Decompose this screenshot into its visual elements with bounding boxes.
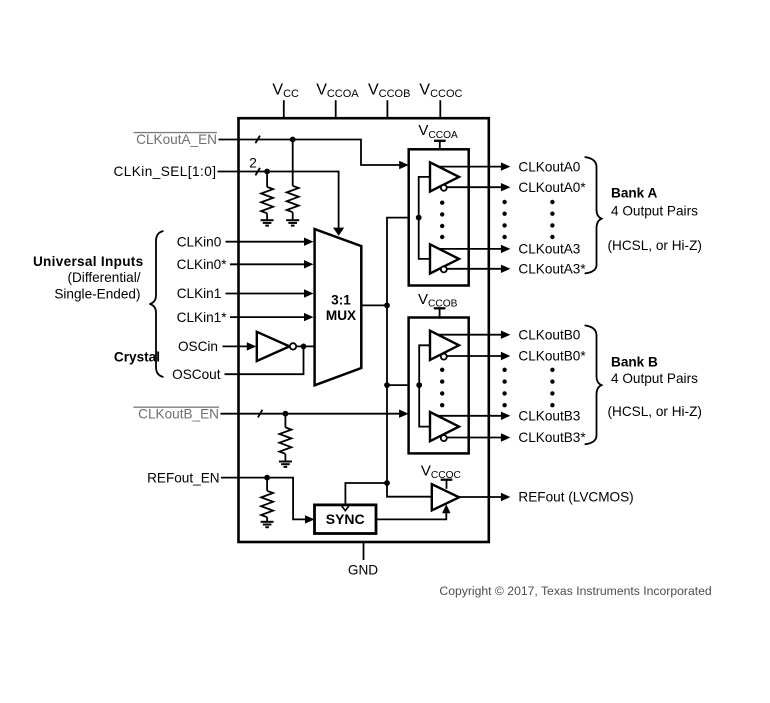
inverter bubble bbox=[290, 343, 296, 349]
svg-text:Universal Inputs: Universal Inputs bbox=[33, 254, 144, 269]
pin VCCOC stub bbox=[439, 100, 441, 118]
buffer REFout (LVCMOS) bbox=[432, 484, 459, 510]
svg-text:CLKin_SEL[1:0]: CLKin_SEL[1:0] bbox=[113, 164, 216, 179]
svg-text:(HCSL, or Hi-Z): (HCSL, or Hi-Z) bbox=[608, 404, 702, 419]
pin GND stub bbox=[363, 542, 365, 560]
ellipsis Bank A buffers bbox=[440, 201, 444, 240]
arrow into SYNC input bbox=[305, 515, 315, 523]
resistor pulldown CLKoutB_EN with ground bbox=[279, 414, 292, 467]
svg-text:CLKoutA3*: CLKoutA3* bbox=[518, 262, 586, 277]
wire CLKin0* to MUX bbox=[230, 263, 305, 265]
open arrow into SYNC top bbox=[342, 506, 349, 511]
label CLKoutB_EN (overlined) bbox=[134, 406, 220, 421]
buffer B0 with outputs CLKoutB0 / CLKoutB0* bbox=[430, 331, 510, 361]
svg-text:OSCin: OSCin bbox=[178, 339, 218, 354]
svg-text:CLKin0: CLKin0 bbox=[177, 234, 222, 249]
svg-text:CLKoutA_EN: CLKoutA_EN bbox=[136, 132, 217, 147]
svg-text:(HCSL, or Hi-Z): (HCSL, or Hi-Z) bbox=[608, 238, 702, 253]
svg-text:CLKoutA3: CLKoutA3 bbox=[518, 242, 580, 257]
wire Bank B input distribution bbox=[419, 345, 430, 426]
resistor pulldown REFout_EN with ground bbox=[261, 478, 274, 528]
Bank B box bbox=[409, 318, 469, 454]
Bank A box bbox=[409, 149, 469, 285]
arrow into Bank A enable bbox=[399, 161, 409, 169]
junction dot CLKoutB_EN bbox=[283, 411, 289, 417]
wire CLKoutB_EN to Bank B enable bbox=[221, 413, 401, 415]
brace Bank A outputs bbox=[585, 157, 602, 274]
arrow into Bank B enable bbox=[399, 410, 409, 418]
wire inverter output to MUX bbox=[297, 345, 315, 347]
power tap VCCOB bbox=[434, 308, 446, 318]
brace universal inputs bbox=[150, 231, 164, 377]
svg-text:CLKin0*: CLKin0* bbox=[177, 257, 228, 272]
buffer B3 with outputs CLKoutB3 / CLKoutB3* bbox=[430, 412, 510, 442]
svg-text:CLKoutA0: CLKoutA0 bbox=[518, 159, 580, 174]
resistor pulldown CLKin_SEL with ground bbox=[261, 172, 274, 226]
wire CLKin0 to MUX bbox=[226, 241, 305, 243]
svg-text:REFout_EN: REFout_EN bbox=[147, 470, 220, 485]
wire REFout_EN to SYNC bbox=[221, 478, 306, 520]
bus slash CLKin_SEL bbox=[255, 168, 260, 176]
svg-text:3:1: 3:1 bbox=[331, 293, 351, 308]
buffer A3 with outputs CLKoutA3 / CLKoutA3* bbox=[430, 244, 510, 273]
bus slash CLKoutA_EN bbox=[255, 136, 260, 144]
junction dot Bank B input bbox=[416, 382, 422, 388]
wire OSCin bbox=[223, 345, 249, 347]
wire CLKin1* to MUX bbox=[230, 316, 305, 318]
arrow CLKin0* into MUX bbox=[304, 260, 314, 268]
svg-text:CLKin1*: CLKin1* bbox=[177, 310, 228, 325]
pin VCC stub bbox=[283, 100, 285, 118]
wire clock distribution bus bbox=[387, 218, 432, 497]
wire CLKoutA_EN to Bank A enable bbox=[219, 140, 401, 166]
wire Bank A input distribution bbox=[419, 177, 430, 259]
svg-text:OSCout: OSCout bbox=[172, 367, 221, 382]
svg-text:CLKin1: CLKin1 bbox=[177, 286, 222, 301]
arrow OSCin into inverter bbox=[247, 342, 256, 350]
svg-text:4 Output Pairs: 4 Output Pairs bbox=[611, 371, 698, 386]
brace Bank B outputs bbox=[585, 325, 602, 444]
svg-text:CLKoutB_EN: CLKoutB_EN bbox=[138, 406, 219, 421]
svg-text:REFout (LVCMOS): REFout (LVCMOS) bbox=[518, 490, 633, 505]
svg-text:Bank A: Bank A bbox=[611, 186, 658, 201]
junction dot oscillator bbox=[301, 344, 307, 350]
wire REFout output bbox=[459, 496, 501, 498]
wire branch to Bank B bbox=[387, 384, 419, 386]
svg-text:CLKoutB0: CLKoutB0 bbox=[518, 327, 580, 342]
svg-text:GND: GND bbox=[348, 563, 378, 578]
wire CLKin_SEL to MUX select bbox=[218, 172, 339, 229]
svg-text:CLKoutB3*: CLKoutB3* bbox=[518, 430, 586, 445]
ellipsis outputs B inner bbox=[502, 368, 506, 408]
buffer A0 with outputs CLKoutA0 / CLKoutA0* bbox=[430, 162, 510, 191]
wire CLKin1 to MUX bbox=[226, 293, 305, 295]
arrow up into REFout buffer bbox=[442, 504, 450, 513]
chip outline bbox=[239, 118, 489, 542]
pin VCCOA stub bbox=[335, 100, 337, 118]
junction dot CLKoutA_EN bbox=[290, 137, 296, 143]
arrow CLKin0 into MUX bbox=[304, 238, 314, 246]
arrow CLKin1 into MUX bbox=[304, 289, 314, 297]
junction dot branch SYNC bbox=[384, 480, 390, 486]
ellipsis outputs A inner bbox=[502, 200, 506, 239]
SYNC block bbox=[315, 505, 377, 534]
junction dot MUX output bbox=[384, 303, 390, 309]
ellipsis outputs B outer bbox=[550, 368, 554, 408]
svg-text:Single-Ended): Single-Ended) bbox=[54, 287, 140, 302]
svg-text:CLKoutB3: CLKoutB3 bbox=[518, 409, 580, 424]
svg-text:CLKoutB0*: CLKoutB0* bbox=[518, 349, 586, 364]
ellipsis outputs A outer bbox=[550, 200, 554, 239]
svg-text:Crystal: Crystal bbox=[114, 349, 160, 364]
mux 3:1 trapezoid bbox=[315, 229, 362, 385]
pin VCCOB stub bbox=[386, 100, 388, 118]
svg-text:4 Output Pairs: 4 Output Pairs bbox=[611, 203, 698, 218]
wire SYNC output to REFout buffer enable bbox=[376, 513, 446, 520]
junction dot REFout_EN bbox=[264, 475, 270, 481]
resistor pulldown CLKoutA_EN with ground bbox=[286, 140, 299, 226]
wire branch to SYNC bbox=[345, 483, 387, 505]
arrow into MUX select bbox=[333, 228, 344, 236]
svg-text:MUX: MUX bbox=[326, 308, 356, 323]
label CLKoutA_EN (overlined) bbox=[134, 132, 218, 147]
junction dot Bank A input bbox=[416, 215, 422, 221]
power tap VCCOA bbox=[434, 141, 446, 151]
svg-text:2: 2 bbox=[249, 156, 257, 171]
svg-text:Copyright © 2017, Texas Instru: Copyright © 2017, Texas Instruments Inco… bbox=[439, 584, 711, 598]
arrow REFout bbox=[501, 493, 511, 501]
svg-text:SYNC: SYNC bbox=[326, 511, 365, 527]
wire MUX output bbox=[361, 304, 387, 306]
svg-text:Bank B: Bank B bbox=[611, 354, 658, 369]
arrow CLKin1* into MUX bbox=[304, 313, 314, 321]
wire OSCout feedback bbox=[225, 346, 304, 374]
inverter U1 (crystal oscillator buffer) bbox=[257, 332, 290, 361]
power tap VCCOC bbox=[441, 480, 453, 489]
junction dot CLKin_SEL bbox=[264, 169, 270, 175]
ellipsis Bank B buffers bbox=[440, 368, 444, 408]
svg-text:(Differential/: (Differential/ bbox=[67, 270, 140, 285]
svg-text:CLKoutA0*: CLKoutA0* bbox=[518, 180, 586, 195]
junction dot branch Bank B bbox=[384, 382, 390, 388]
bus slash CLKoutB_EN bbox=[258, 410, 263, 418]
